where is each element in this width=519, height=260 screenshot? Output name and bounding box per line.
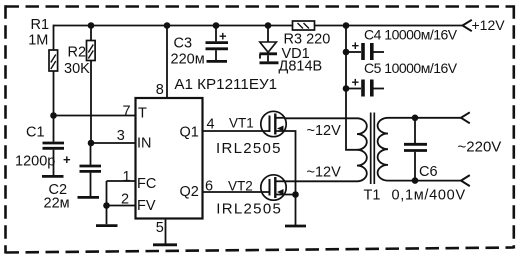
schematic dashed border frame	[6, 5, 514, 8]
capacitor C3 (electrolytic)	[206, 26, 229, 61]
resistor R3	[293, 21, 315, 30]
svg-text:C4 10000м/16V: C4 10000м/16V	[364, 27, 458, 43]
wire VT2 source join	[276, 194, 296, 196]
svg-text:~12V: ~12V	[307, 123, 342, 139]
transformer T1 primary winding	[357, 118, 367, 181]
resistor R1	[49, 50, 58, 71]
junction dot C5	[343, 85, 350, 92]
wire R2 bottom to node IN	[90, 61, 92, 144]
svg-text:C1: C1	[26, 125, 45, 141]
ground under C2	[78, 196, 100, 199]
svg-text:R3 220: R3 220	[284, 32, 331, 48]
svg-text:+: +	[219, 29, 227, 44]
svg-text:C6: C6	[419, 164, 438, 180]
terminal ~220V bottom arrow	[461, 175, 470, 186]
svg-text:1M: 1M	[28, 33, 48, 49]
svg-text:220м: 220м	[171, 52, 205, 68]
wire R2 top	[90, 25, 92, 41]
svg-text:+: +	[352, 38, 360, 53]
capacitor C5 (electrolytic)	[346, 75, 384, 97]
svg-text:IRL2505: IRL2505	[216, 140, 282, 157]
transformer T1 core	[371, 113, 375, 185]
terminal +12V arrow	[463, 20, 472, 31]
node IN junction dot	[88, 140, 95, 147]
ground under VD1	[260, 61, 279, 64]
ground under C1	[42, 175, 64, 178]
resistor R2	[87, 41, 96, 61]
wire VT2 drain to T1 primary bottom	[284, 180, 357, 182]
svg-text:+12V: +12V	[472, 17, 506, 33]
ground under FC/FV	[96, 224, 118, 227]
svg-text:~220V: ~220V	[458, 139, 502, 156]
wire pin 1 FC	[107, 180, 136, 182]
ground under VT1/VT2 sources	[285, 225, 306, 228]
junction dot R2/rail	[88, 22, 95, 29]
wire FV node to ground	[106, 206, 108, 225]
IC A1 KR1211EU1 box	[136, 98, 203, 219]
svg-text:R1: R1	[31, 17, 50, 33]
svg-text:Q1: Q1	[180, 125, 199, 141]
capacitor C4 (electrolytic)	[346, 38, 384, 60]
svg-text:~12V: ~12V	[307, 165, 342, 181]
svg-text:R2: R2	[68, 45, 87, 61]
junction dot C6 bottom	[412, 177, 419, 184]
junction dot C6 top	[412, 115, 419, 122]
wire VT1 source to ground rail	[276, 131, 296, 225]
svg-text:VT2: VT2	[228, 178, 253, 193]
svg-text:2: 2	[121, 192, 129, 208]
capacitor C2 (electrolytic)	[63, 143, 101, 196]
transistor VT2 (IRL2505 MOSFET)	[261, 175, 286, 200]
svg-text:+: +	[352, 75, 360, 90]
zener diode VD1	[260, 25, 278, 62]
svg-text:FV: FV	[137, 198, 156, 214]
capacitor C6	[404, 118, 427, 181]
svg-text:0,1м/400V: 0,1м/400V	[392, 188, 466, 204]
svg-text:1: 1	[123, 169, 131, 185]
transformer T1 secondary winding	[378, 118, 388, 181]
svg-text:1200p: 1200p	[15, 154, 55, 170]
svg-text:+: +	[63, 152, 71, 167]
junction dot C4	[343, 49, 350, 56]
svg-text:5: 5	[156, 220, 164, 236]
svg-text:IRL2505: IRL2505	[216, 200, 282, 217]
wire R1 bottom to node T	[53, 71, 55, 116]
junction dot FC/FV	[103, 202, 110, 209]
svg-text:T: T	[138, 106, 147, 122]
svg-text:C3: C3	[174, 36, 193, 52]
ground under pin 5	[153, 243, 177, 246]
junction dot feed/rail	[343, 22, 350, 29]
junction dot pin8/rail	[164, 22, 171, 29]
wire FC down to FV	[106, 181, 108, 206]
svg-text:VT1: VT1	[229, 115, 254, 130]
svg-text:22м: 22м	[44, 196, 70, 212]
wire pin 5 down	[165, 219, 167, 244]
wire node T to pin 7	[54, 115, 136, 117]
wire T1 secondary top to output	[388, 117, 461, 119]
svg-text:FC: FC	[137, 176, 156, 192]
junction dot VT2 source	[292, 191, 299, 198]
svg-text:А1 КР1211ЕУ1: А1 КР1211ЕУ1	[174, 76, 277, 93]
junction dot VD1/rail	[265, 22, 272, 29]
ground under C3	[207, 60, 228, 63]
wire +12V top rail	[54, 25, 463, 27]
wire R1 top (rail corner down to R1)	[53, 25, 55, 50]
wire pin 2 FV	[107, 205, 136, 207]
svg-text:Д814В: Д814В	[279, 58, 323, 74]
capacitor C1	[43, 116, 65, 176]
svg-text:7: 7	[123, 104, 131, 120]
wire T1 secondary bottom to output	[388, 180, 461, 182]
svg-text:30K: 30K	[64, 61, 90, 77]
svg-text:T1: T1	[364, 188, 381, 204]
terminal ~220V top arrow	[461, 112, 470, 123]
junction dot C3/rail	[213, 22, 220, 29]
wire node IN to pin 3	[91, 142, 136, 144]
svg-text:Q2: Q2	[180, 184, 199, 200]
transistor VT1 (IRL2505 MOSFET)	[261, 111, 286, 136]
svg-text:8: 8	[156, 82, 164, 98]
wire pin 8 to rail	[166, 26, 168, 99]
wire Q1 to VT1 gate	[203, 130, 270, 132]
wire +12V feed down to transformer center tap	[346, 26, 358, 150]
wire Q2 to VT2 gate	[203, 191, 270, 193]
wire VT1 drain to T1 primary top	[284, 117, 357, 119]
node T junction dot	[50, 112, 57, 119]
svg-text:IN: IN	[137, 136, 152, 152]
svg-text:C5 10000м/16V: C5 10000м/16V	[364, 60, 458, 76]
svg-text:3: 3	[117, 128, 125, 144]
